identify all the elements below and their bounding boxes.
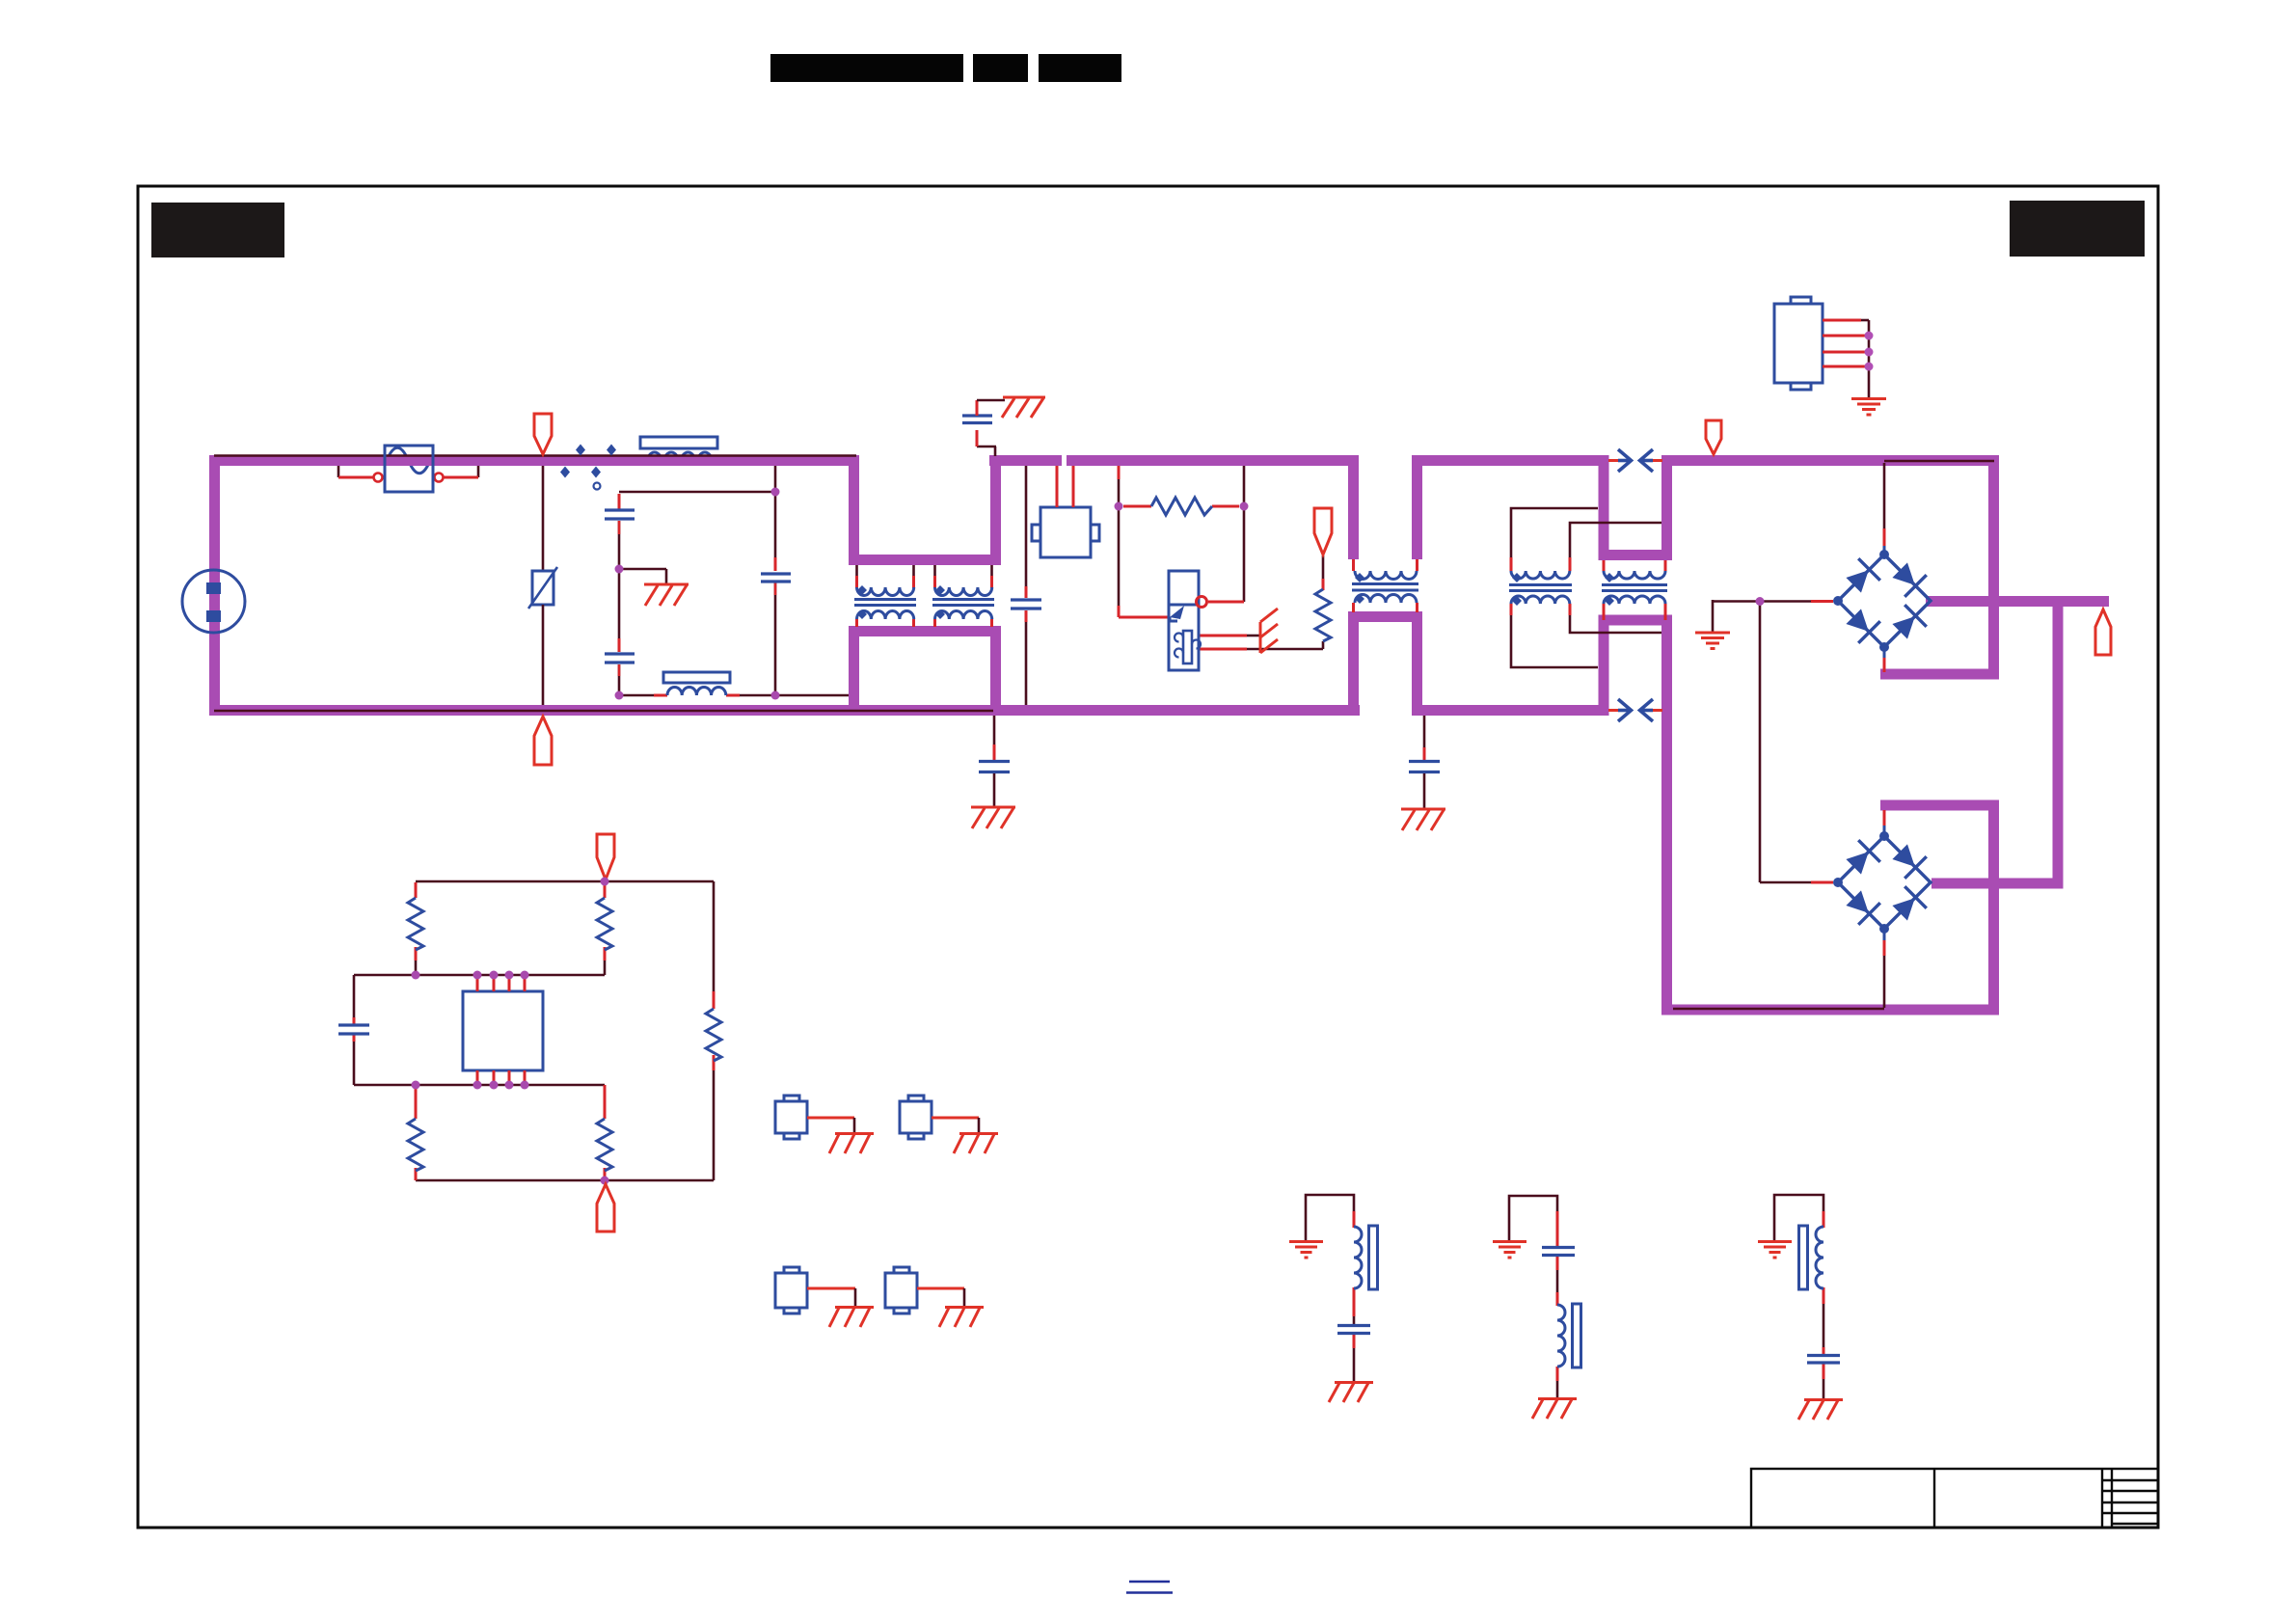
wire: lower bridge top connection (1883, 810, 1886, 838)
switching IC U3 (with MOSFET) (1169, 571, 1207, 670)
transformer T3 (1509, 557, 1572, 615)
wire: T1 left leg lower (1348, 617, 1359, 717)
wire: top bus segment D left (1412, 455, 1608, 466)
resistor R6 (597, 1119, 612, 1171)
wire: T1 right leg upper (1412, 455, 1422, 559)
node: small open circle (594, 483, 601, 490)
wire: lower bridge top stub (1880, 800, 1999, 811)
ground (earth bars) branch 3 (1758, 1242, 1792, 1259)
ground (earth bars) for J2 (1851, 399, 1886, 416)
wire: vertical lower segment to bottom bus (1988, 805, 1999, 1015)
ground (slash style) branch 2 (1532, 1399, 1577, 1420)
node junction dots (615, 488, 780, 700)
sheet border frame (138, 186, 2158, 1528)
chassis slashes (tab) (1260, 609, 1278, 653)
wire: secondary rail (1412, 705, 1608, 716)
capacitor C6 (338, 1025, 369, 1034)
resistor R4 (597, 898, 612, 950)
Y-cap C8 and ground above bus B (962, 400, 1005, 456)
capacitor C9 (1337, 1326, 1370, 1334)
wire: upper bridge top connection (1883, 463, 1886, 557)
capacitor C3 (761, 574, 791, 582)
wire: vertical choke bottom rail left leg (849, 626, 859, 716)
wire: thin line inside bus D right (1884, 460, 1994, 463)
wire: top bus segment A (209, 455, 859, 466)
fuse F1 (338, 446, 478, 492)
BUSES (209, 455, 2109, 1015)
wire: right vertical between bridges (2053, 596, 2064, 889)
X-cap C4 across line in choke section (1011, 466, 1041, 705)
redaction block top-right (2010, 201, 2145, 257)
connector flag VCC (points down) (1314, 508, 1332, 555)
wire: upper bridge bottom connection (1883, 646, 1886, 672)
wire: T4 crossbar upper (1599, 550, 1673, 560)
opto box U8 (885, 1267, 917, 1313)
wire: top bus corner vertical at right (1988, 455, 1999, 680)
ground (slash style) U6 (954, 1134, 998, 1154)
wire: bus left vertical (209, 455, 220, 716)
snubber network wires (1119, 466, 1323, 649)
redaction block top-left (151, 203, 284, 257)
redaction bar 2 (973, 54, 1028, 82)
wire: U2 pins to bus (1056, 466, 1059, 507)
wire: T1 left leg upper (1348, 455, 1359, 559)
connector flag DC out (points up, at mid bus end) (2095, 609, 2111, 655)
node dots control circuit (412, 878, 609, 1185)
ground (earth bars) branch 1 (1289, 1242, 1323, 1259)
diode bridge BD1 (upper) (1833, 550, 1931, 652)
diode bridge BD2 (lower) (1833, 831, 1931, 934)
connector flag (top, points down) (597, 834, 614, 880)
resistor R2 (vertical) (1315, 589, 1331, 641)
varistor/NTC RT1 (528, 466, 557, 705)
inductor L3 with core bar (1557, 1304, 1581, 1367)
relay/box U2 with side tabs (1032, 507, 1099, 557)
bus break arrows (inline connector, secondary rail) (1608, 699, 1662, 721)
AC inlet J1 (182, 570, 245, 633)
resistor R1 (snubber) (1151, 498, 1212, 515)
ground (slash style) branch 1 (1329, 1383, 1373, 1403)
ground (slash style) below C7 (1401, 809, 1445, 830)
ground (slash style) U8 (939, 1308, 984, 1328)
filter branch 3 wires (1774, 1195, 1823, 1399)
wire: T4 upper right vertical (1661, 455, 1672, 560)
wire: J2 pins (1823, 320, 1869, 366)
fuse F1 element (sine under bus) (387, 447, 430, 474)
ground (slash style) U5 (829, 1134, 874, 1154)
connector J2 (top right) (1774, 297, 1823, 390)
capacitor C2 (605, 654, 635, 663)
wire: thin line inside bottom output bus (1673, 1008, 1884, 1011)
filter branch 2 wires (1509, 1196, 1557, 1398)
Y-cap C7 and ground below secondary rail (1409, 716, 1440, 808)
wire: T4 upper left vertical (1599, 455, 1609, 560)
wire: ground to bridges (1713, 602, 1811, 883)
connector flag (line in, pointing down onto bus) (534, 414, 552, 454)
wire: choke bottom rail (849, 626, 1001, 636)
Y-cap C5 and ground below bottom rail (979, 716, 1010, 806)
connector flag on bus D (points down) (1706, 420, 1721, 454)
thin dark wires drawn under/inside buses (214, 456, 1994, 1010)
capacitor C11 (1807, 1356, 1840, 1364)
connector flag (bottom, points up) (597, 1184, 614, 1232)
wire: vertical bus A end down to choke top rail (849, 461, 859, 566)
wire: vertical choke bottom rail right leg (990, 626, 1001, 716)
wire: T1 right leg lower (1412, 617, 1422, 717)
wire: T4 left lower vertical to rail (1599, 620, 1609, 716)
ground (earth bars) at bridge input (1695, 600, 1730, 649)
ground (slash style) U7 (829, 1308, 874, 1328)
ground (slash style) for C8 (1002, 397, 1045, 418)
ground (slash style) branch 3 (1798, 1400, 1843, 1421)
wire: top bus segment D right (1661, 455, 1999, 466)
wire: mid horizontal DC+ bus (1926, 596, 2109, 607)
wire: T1 bottom bar (1348, 611, 1422, 622)
wire: lower bridge bottom connection (1883, 928, 1886, 1008)
wire: upper bridge bottom stub (1880, 669, 1999, 680)
wire: choke top rail (849, 555, 1001, 565)
transformer T4 (1602, 560, 1667, 620)
ground (slash style) at C1/C2 midpoint (644, 584, 689, 606)
ground (slash style) below C5 (971, 807, 1015, 828)
spark-gap diamonds on bus (560, 445, 616, 478)
wire: bottom output bus (1661, 1005, 1999, 1015)
wire: T3 pin connections (1511, 508, 1661, 667)
connector flag (line return, pointing up from bottom rail) (534, 717, 552, 765)
resistor R3 (408, 898, 423, 950)
ground (earth bars) branch 2 (1493, 1242, 1526, 1259)
capacitor C1 (605, 510, 635, 519)
opto box U7 (775, 1267, 807, 1313)
inductor L4 with core bar (bar left) (1799, 1226, 1824, 1289)
wire: T4 crossbar lower (1599, 615, 1673, 626)
wire: vertical choke top rail up to bus B (990, 461, 1001, 566)
filter branch 1 wires (1306, 1195, 1354, 1382)
wire: right vertical bus (output return) (1661, 620, 1672, 1015)
inductor L0 on top bus (arcs under bus) (640, 437, 717, 466)
wire: lower-mid horizontal (1931, 879, 2064, 889)
wire: thin line inside bottom rail (214, 710, 993, 713)
wire: bottom rail (primary return) (209, 705, 1360, 716)
inductor L1 with core bar (663, 672, 730, 695)
wire: bus segment B (989, 455, 1062, 466)
common-mode choke LF1 (854, 565, 916, 627)
wire: thin line inside top bus A (214, 454, 856, 457)
redaction bar 1 (top title) (770, 54, 963, 82)
opto box U6 (900, 1096, 932, 1139)
resistor R5 (408, 1119, 423, 1171)
X-cap branch wires (619, 466, 849, 695)
common-mode choke LF2 (932, 565, 994, 627)
inductor L2 with core bar (1354, 1226, 1378, 1289)
bus break arrows (inline connector, top bus) (1608, 449, 1662, 472)
node dots snubber (1115, 502, 1123, 511)
capacitor C10 (1542, 1248, 1575, 1256)
IC U4 pins top (477, 975, 525, 1085)
resistor R7 (right) (706, 1009, 721, 1061)
wires of control circuit (354, 881, 714, 1180)
wire: bus segment C (1067, 455, 1359, 466)
opto box U5 (775, 1096, 807, 1139)
redaction bar 3 (1039, 54, 1121, 82)
IC U4 (463, 991, 543, 1070)
page footer mark (two lines) (1129, 1581, 1170, 1583)
